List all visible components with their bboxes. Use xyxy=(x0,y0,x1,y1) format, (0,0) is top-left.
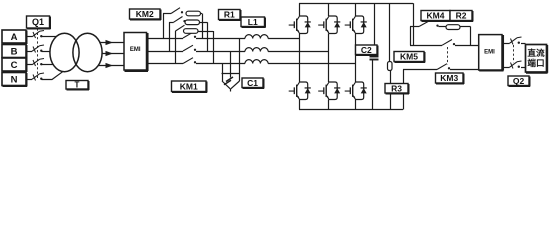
KM2 branch 3 return riser xyxy=(213,31,215,64)
resistor R1 element 3 xyxy=(184,29,199,34)
KM4 to R2 wire xyxy=(439,26,447,28)
phase wire 2 KM1 to L1 xyxy=(196,51,245,53)
phase wire 3 KM1 to L1 xyxy=(196,63,245,65)
svg-text:R3: R3 xyxy=(391,83,402,93)
DC- wire to DC port xyxy=(521,67,526,69)
resistor R3 element xyxy=(388,62,393,71)
IGBT bottom 3 with diode xyxy=(345,82,367,100)
contactor KM2 contact 3 xyxy=(176,25,188,31)
IGBT bottom 2 with diode xyxy=(318,82,340,100)
leg 1 mid vertical xyxy=(299,34,301,83)
KM2 branch 1 wire out xyxy=(201,13,203,15)
phase wire 1 KM1 to L1 xyxy=(196,38,245,40)
leg 2 emitter stem bottom xyxy=(328,100,330,110)
resistor R1 element 1 xyxy=(186,11,201,16)
C1 stub down xyxy=(230,89,232,92)
capacitor C2 label xyxy=(356,45,379,56)
contactor KM2 contact 1 xyxy=(171,8,183,14)
KM2 branch 1 return riser xyxy=(202,14,204,39)
DC+ wire to DC port xyxy=(521,43,526,45)
inductor L1 coil 1 xyxy=(245,35,268,39)
resistor R3 label xyxy=(385,83,409,94)
KM4 branch wire xyxy=(410,26,419,28)
resistor R2 element xyxy=(446,25,460,30)
phase wire 1 EMI to KM1 xyxy=(149,38,184,40)
svg-text:EMI: EMI xyxy=(484,50,495,56)
svg-text:L1: L1 xyxy=(248,17,258,27)
KM2 branch 1 riser xyxy=(163,14,165,39)
breaker Q1 pole B xyxy=(32,45,44,53)
svg-text:KM2: KM2 xyxy=(136,9,154,19)
transformer T winding 1 xyxy=(50,33,79,71)
terminal box C xyxy=(2,58,27,72)
IGBT top 2 with diode xyxy=(318,16,340,34)
transformer T label xyxy=(66,81,89,91)
leg 1 emitter stem bottom xyxy=(299,100,301,110)
phase wire 1 L1 to bridge leg 1 xyxy=(268,38,299,40)
contactor KM5 contact xyxy=(442,40,455,46)
transformer T winding 2 xyxy=(73,33,102,71)
wire C to transformer xyxy=(42,64,54,66)
contactor KM5 label xyxy=(394,52,425,63)
resistor R1 element 2 xyxy=(185,20,200,25)
C1 tap right from phase 1 xyxy=(239,38,241,73)
svg-text:R2: R2 xyxy=(456,11,467,21)
C1 top bus xyxy=(222,73,241,75)
DC+ wire to EMI 2 xyxy=(455,45,479,47)
DC+ wire EMI2 to Q2 xyxy=(504,43,510,45)
C1 plate 2 xyxy=(224,80,231,85)
arrow phase 1 xyxy=(106,40,114,45)
contactor KM1 contact 3 xyxy=(183,58,196,64)
C1 plate 1 xyxy=(226,77,233,82)
leg 3 emitter stem bottom xyxy=(355,100,357,110)
C2 wire bottom xyxy=(372,60,374,110)
contactor KM4 contact xyxy=(419,21,439,27)
contactor KM1 contact 1 xyxy=(183,32,196,38)
breaker Q2 label xyxy=(508,76,530,87)
DC- riser to KM3 xyxy=(403,70,405,110)
R2 branch return riser xyxy=(470,27,472,46)
svg-text:B: B xyxy=(11,46,18,57)
KM2 branch 3 wire xyxy=(174,31,177,33)
DC+ wire to KM5 xyxy=(410,45,442,47)
phase wire 3 EMI to KM1 xyxy=(149,63,184,65)
IGBT bottom 1 with diode xyxy=(289,82,311,100)
contactor KM4 label xyxy=(421,11,451,22)
C1 right side drop xyxy=(239,73,241,81)
terminal box A xyxy=(2,30,27,44)
arrow phase 3 xyxy=(106,63,114,68)
C1 diagonal left xyxy=(222,81,230,89)
inductor L1 label xyxy=(241,17,266,28)
wire B to transformer xyxy=(42,51,51,53)
leg 1 collector stem top xyxy=(299,3,301,16)
resistor R1 label xyxy=(219,10,242,21)
R2 out wire xyxy=(460,26,471,28)
R3 wire bottom xyxy=(390,71,392,110)
IGBT top 3 with diode xyxy=(345,16,367,34)
inductor L1 coil 2 xyxy=(245,48,268,52)
breaker Q2 pole 2 xyxy=(510,61,522,69)
Q2 mechanical link (dashed) xyxy=(513,45,515,63)
leg 2 mid vertical xyxy=(328,34,330,83)
breaker Q1 pole A xyxy=(32,31,44,39)
terminal box N xyxy=(2,73,27,87)
KM5-KM3 link (dashed) xyxy=(447,47,449,65)
breaker Q2 pole 1 xyxy=(510,37,522,45)
phase wire 3 L1 to bridge leg 3 xyxy=(268,63,355,65)
svg-text:C2: C2 xyxy=(361,45,372,55)
C1 tap middle from phase 2 xyxy=(230,51,232,73)
wire transformer to EMI phase 2 xyxy=(102,53,124,55)
EMI filter 2 xyxy=(479,35,504,71)
breaker Q1 pole C xyxy=(32,59,44,67)
wire transformer to EMI phase 1 xyxy=(100,42,124,44)
svg-text:C: C xyxy=(11,60,18,71)
KM2 branch 2 riser xyxy=(169,22,171,51)
KM4 branch riser xyxy=(410,27,412,46)
KM2 branch 2 return riser xyxy=(207,22,209,51)
capacitor C1 label xyxy=(242,78,264,89)
svg-text:KM3: KM3 xyxy=(440,73,458,83)
C2 plate 1 xyxy=(370,56,379,58)
wire C to Q1 pole xyxy=(26,64,32,66)
contactor KM2 label xyxy=(130,9,162,20)
svg-text:Q2: Q2 xyxy=(513,76,525,86)
DC+ top rail xyxy=(299,3,413,5)
C1 tap left from phase 3 xyxy=(222,64,224,74)
svg-text:N: N xyxy=(11,74,18,85)
DC- wire EMI2 to Q2 xyxy=(504,67,510,69)
svg-text:Q1: Q1 xyxy=(32,17,44,27)
DC- wire to KM3 xyxy=(403,69,437,71)
C1 left side drop xyxy=(222,73,224,81)
svg-text:R1: R1 xyxy=(224,10,235,20)
C2 wire top xyxy=(374,3,376,45)
C2 plate 2 xyxy=(370,59,379,61)
wire transformer to EMI phase 3 xyxy=(98,65,124,67)
contactor KM3 contact xyxy=(437,64,450,70)
KM2 branch 2 wire out xyxy=(200,22,208,24)
leg 2 collector stem top xyxy=(328,3,330,16)
breaker Q1 pole N xyxy=(32,73,44,81)
KM2 branch 3 riser xyxy=(175,31,177,64)
terminal box B xyxy=(2,45,27,59)
arrow phase 2 xyxy=(106,51,114,56)
wire A to transformer xyxy=(42,36,57,38)
svg-text:KM1: KM1 xyxy=(180,81,198,91)
contactor KM1 label xyxy=(172,81,208,93)
Q1 mechanical link (dashed) xyxy=(37,29,39,79)
svg-text:KM5: KM5 xyxy=(400,52,418,62)
leg 3 mid vertical xyxy=(355,34,357,83)
svg-text:直流: 直流 xyxy=(527,47,545,58)
svg-text:KM4: KM4 xyxy=(427,11,445,21)
wire N to transformer xyxy=(42,72,63,80)
EMI filter 1 xyxy=(124,33,148,72)
svg-text:端口: 端口 xyxy=(527,57,544,68)
R3 wire top xyxy=(389,3,391,61)
KM2 branch 1 wire xyxy=(163,13,171,15)
KM2 branch 3 wire out xyxy=(198,31,213,33)
contactor KM3 label xyxy=(436,73,465,84)
svg-text:T: T xyxy=(75,81,80,90)
wire N to Q1 pole xyxy=(26,79,32,81)
DC- bottom rail xyxy=(299,109,403,111)
C1 middle drop xyxy=(230,73,232,78)
breaker Q1 label xyxy=(27,16,51,29)
resistor R2 label xyxy=(450,11,473,22)
contactor KM2 contact 2 xyxy=(174,17,186,23)
contactor KM1 contact 2 xyxy=(183,45,196,51)
DC- wire to EMI 2 xyxy=(450,69,479,71)
DC port box (直流端口) xyxy=(526,45,548,73)
svg-text:A: A xyxy=(11,32,18,43)
IGBT top 1 with diode xyxy=(289,16,311,34)
leg 3 collector stem top xyxy=(355,3,357,16)
DC+ rail end riser xyxy=(413,3,415,45)
phase wire 2 EMI to KM1 xyxy=(149,51,184,53)
C1 diagonal right xyxy=(231,81,240,89)
svg-text:C1: C1 xyxy=(247,78,258,88)
inductor L1 coil 3 xyxy=(245,60,268,64)
wire B to Q1 pole xyxy=(26,51,32,53)
wire A to Q1 pole xyxy=(26,36,32,38)
KM2 branch 2 wire xyxy=(169,22,174,24)
svg-text:EMI: EMI xyxy=(130,47,141,53)
phase wire 2 L1 to bridge leg 2 xyxy=(268,51,328,53)
